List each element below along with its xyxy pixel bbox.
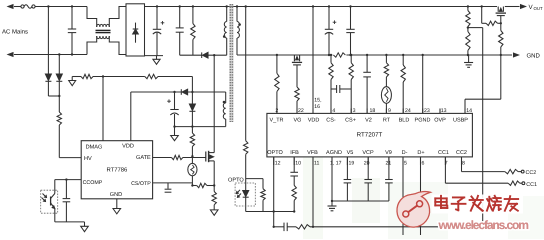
svg-text:8: 8 (462, 160, 465, 166)
svg-text:23: 23 (424, 108, 430, 114)
svg-text:3: 3 (353, 108, 356, 114)
svg-text:VG: VG (294, 118, 302, 124)
svg-text:VDD: VDD (308, 118, 320, 124)
svg-text:CS+: CS+ (345, 118, 356, 124)
svg-text:PGND: PGND (415, 118, 431, 124)
svg-text:9: 9 (388, 108, 391, 114)
svg-text:V2: V2 (365, 118, 372, 124)
svg-text:www.elecfans.com: www.elecfans.com (438, 218, 529, 232)
svg-text:RT7207T: RT7207T (357, 132, 383, 139)
svg-text:4: 4 (332, 108, 335, 114)
svg-text:AC Mains: AC Mains (2, 29, 28, 36)
svg-text:14: 14 (466, 108, 472, 114)
svg-text:D-: D- (402, 150, 408, 156)
svg-text:OPTO: OPTO (267, 150, 283, 156)
svg-text:CC1: CC1 (438, 150, 449, 156)
svg-text:D+: D+ (417, 150, 424, 156)
svg-text:24: 24 (405, 108, 411, 114)
svg-text:V5: V5 (347, 150, 354, 156)
svg-text:GND: GND (110, 192, 122, 198)
svg-text:USBP: USBP (453, 118, 468, 124)
svg-text:RT7786: RT7786 (106, 167, 128, 174)
svg-text:RT: RT (383, 118, 391, 124)
svg-text:12: 12 (275, 160, 281, 166)
svg-text:CCOMP: CCOMP (83, 180, 103, 186)
svg-text:CC1: CC1 (526, 182, 537, 188)
svg-text:VDD: VDD (122, 144, 134, 150)
svg-text:6: 6 (422, 160, 425, 166)
svg-text:OVP: OVP (434, 118, 446, 124)
svg-text:15,: 15, (314, 98, 321, 104)
svg-text:22: 22 (298, 108, 304, 114)
svg-text:OUT: OUT (534, 6, 543, 11)
svg-text:OPTO: OPTO (228, 178, 244, 184)
svg-text:CC2: CC2 (456, 150, 467, 156)
svg-text:DMAG: DMAG (86, 145, 103, 151)
svg-text:11: 11 (314, 160, 319, 166)
svg-text:13: 13 (441, 108, 447, 114)
svg-text:VCP: VCP (362, 150, 374, 156)
svg-text:18: 18 (370, 108, 376, 114)
svg-text:10: 10 (295, 160, 301, 166)
svg-text:VFB: VFB (307, 150, 318, 156)
svg-text:V9: V9 (385, 150, 392, 156)
svg-text:V_TR: V_TR (269, 118, 283, 124)
svg-text:16: 16 (314, 104, 320, 110)
svg-text:20: 20 (364, 160, 370, 166)
svg-text:CC2: CC2 (526, 170, 537, 176)
svg-text:CS/OTP: CS/OTP (131, 181, 151, 187)
svg-text:HV: HV (84, 156, 92, 162)
svg-text:19: 19 (349, 160, 355, 166)
svg-text:CS-: CS- (326, 118, 336, 124)
svg-text:AGND: AGND (326, 150, 342, 156)
svg-text:BLD: BLD (399, 118, 410, 124)
svg-text:GATE: GATE (136, 155, 151, 161)
svg-text:5: 5 (404, 160, 407, 166)
svg-text:IFB: IFB (290, 150, 299, 156)
svg-text:GND: GND (527, 53, 541, 60)
